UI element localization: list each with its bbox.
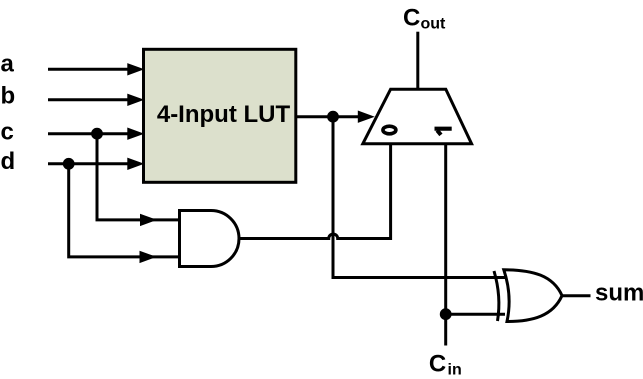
node Cin (440, 308, 452, 320)
svg-text:a: a (1, 50, 15, 77)
AND gate (180, 211, 240, 267)
svg-text:out: out (421, 15, 447, 32)
wire node to XOR top input (333, 117, 505, 278)
svg-text:c: c (1, 118, 14, 145)
wire d (48, 158, 144, 170)
svg-text:4-Input LUT: 4-Input LUT (157, 101, 291, 128)
wire a (48, 63, 144, 75)
LUT U1 (144, 49, 296, 182)
XOR gate input arc (494, 271, 499, 321)
svg-text:sum: sum (595, 280, 643, 307)
node on LUT output (327, 111, 339, 123)
svg-text:in: in (448, 362, 462, 379)
wire mux input 1 to Cin (444, 144, 447, 346)
label Cout (403, 5, 446, 33)
mux U2 (363, 89, 472, 144)
wire b (48, 94, 144, 106)
wire XOR output (562, 294, 591, 297)
svg-text:C: C (429, 350, 446, 377)
XOR gate body (504, 270, 562, 322)
mux input label 1 (435, 129, 452, 135)
svg-text:C: C (403, 5, 420, 32)
svg-text:b: b (1, 83, 16, 110)
node on wire c (91, 128, 103, 140)
wire c (48, 128, 144, 140)
wire d to AND input (69, 164, 180, 263)
node on wire d (63, 158, 75, 170)
label Cin (429, 350, 462, 378)
svg-text:d: d (1, 148, 16, 175)
wire LUT output to mux select (296, 111, 375, 123)
wire c to AND input (97, 134, 180, 226)
wire Cin node to XOR bottom input (446, 313, 505, 316)
wire AND output to mux input 0 (with hop over vertical wire) (239, 144, 391, 239)
wire Cout stem (416, 32, 419, 89)
mux input label 0 (383, 126, 396, 134)
